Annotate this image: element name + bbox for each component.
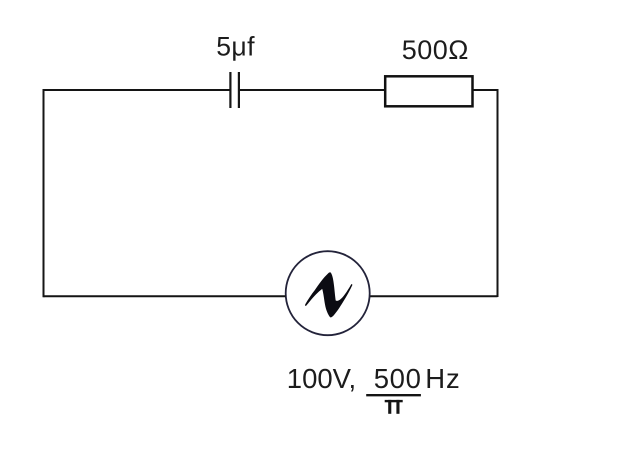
svg-text:5μf: 5μf	[216, 32, 255, 62]
fraction bar of 500/π	[366, 394, 421, 396]
AC source V1 sine squiggle symbol	[305, 272, 352, 317]
wire: bottom-left horizontal segment	[44, 295, 286, 297]
wire: bottom-right horizontal segment	[370, 295, 498, 297]
svg-text:500Ω: 500Ω	[402, 35, 469, 65]
svg-text:Hz: Hz	[425, 363, 460, 394]
wire: top-left horizontal segment	[44, 89, 231, 91]
wire: capacitor to resistor	[239, 89, 386, 91]
svg-text:100V,: 100V,	[287, 363, 356, 394]
label: frequency denominator π	[385, 400, 403, 414]
wire: resistor to top-right corner	[473, 89, 498, 91]
resistor R1 (500Ω) body	[385, 76, 472, 106]
svg-text:500: 500	[374, 363, 422, 394]
capacitor C1 (5μf) left plate	[229, 72, 231, 108]
wire: left vertical segment	[43, 89, 45, 297]
wire: right vertical segment	[497, 89, 499, 297]
capacitor C1 (5μf) right plate	[238, 72, 240, 108]
AC source V1 circle	[286, 251, 370, 335]
